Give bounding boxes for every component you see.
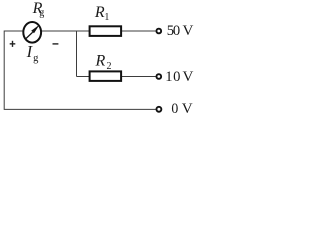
svg-text:10: 10 bbox=[165, 69, 180, 85]
svg-text:0: 0 bbox=[171, 101, 178, 117]
svg-text:V: V bbox=[182, 101, 193, 117]
svg-text:R: R bbox=[94, 4, 105, 21]
svg-text:g: g bbox=[39, 8, 44, 19]
svg-text:V: V bbox=[183, 69, 194, 85]
svg-text:R: R bbox=[95, 52, 106, 69]
svg-text:V: V bbox=[183, 23, 194, 39]
svg-text:g: g bbox=[33, 53, 39, 64]
svg-text:2: 2 bbox=[107, 61, 112, 72]
svg-text:50: 50 bbox=[167, 23, 180, 39]
svg-text:1: 1 bbox=[104, 12, 109, 23]
